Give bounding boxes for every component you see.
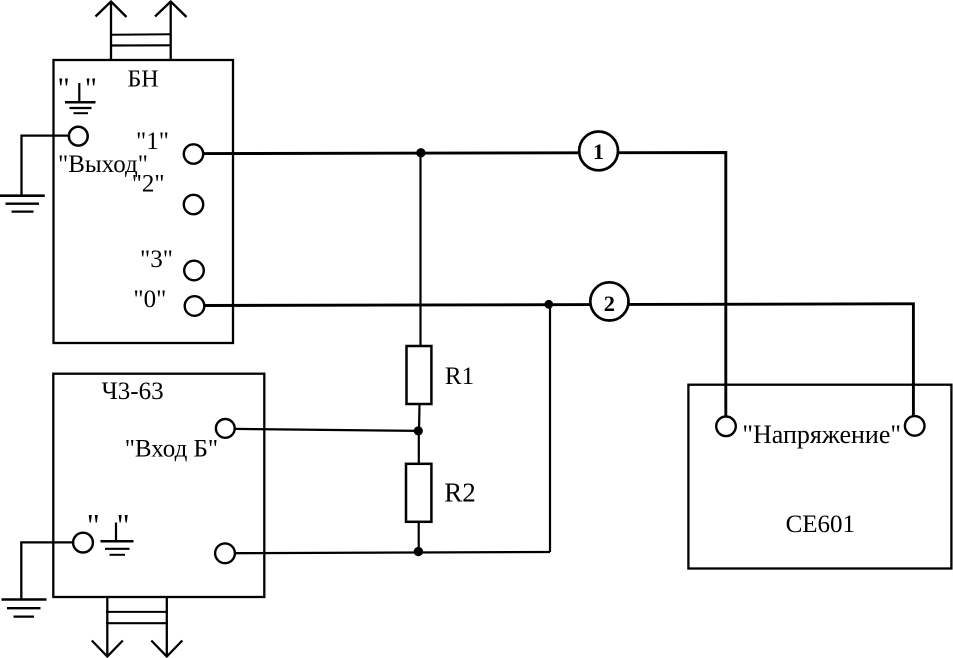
wire from Vyhod terminal to external ground [22,136,69,195]
svg-text:1: 1 [593,139,604,164]
cable rungs (top) [110,34,172,45]
svg-text:": " [85,72,97,105]
terminal CE601 right (Napryazhenie -) [905,416,925,436]
junction dot on wire 2 (tap to R2 bottom) [544,300,553,309]
svg-text:": " [58,72,70,105]
label "0" [133,286,166,313]
svg-text:R1: R1 [445,363,474,390]
svg-text:"1": "1" [136,128,169,155]
svg-text:СЕ601: СЕ601 [786,511,855,538]
svg-text:": " [87,507,100,543]
junction dot on bottom rail [414,547,423,556]
label CE601 [786,511,855,538]
terminal Ch3-63 lower-right [215,543,235,563]
label R2 [444,477,476,507]
svg-text:БН: БН [128,67,159,93]
junction dot at R1 top tap [416,148,425,157]
resistor R2 [406,464,431,522]
cable to mains (bottom), right conductor with arrow [151,597,182,657]
svg-text:"2": "2" [132,171,165,198]
ground symbol inside Ch3-63 (chassis, with quotes) [87,507,134,555]
block CE601 (voltmeter) outline [688,385,951,569]
label Napryazhenie [742,420,901,449]
bottom rail wire: Ch3-63 lower terminal to vertical riser [235,552,550,553]
cable to mains (bottom), left conductor with arrow [92,597,123,657]
label Ch3-63 title [102,378,164,405]
wire from Ch3-63 ground terminal to external ground [21,542,73,598]
block Ch3-63 (frequency counter) outline [53,374,264,597]
cable rungs (bottom) [106,612,168,623]
wire R1 bottom to mid junction [418,404,421,431]
earth ground (lower-left, external) [2,600,47,617]
earth ground (upper-left, external) [0,196,45,212]
label "1" [136,128,169,155]
wire from Vhod B terminal to mid junction [235,429,418,431]
label Vyhod [58,151,148,178]
block BN (voltage source unit) outline [54,60,234,343]
label R1 [445,363,474,390]
wire from junction down to R1 [419,153,421,347]
wire R2 bottom to bottom junction [418,522,420,552]
label "2" [132,171,165,198]
svg-text:Ч3-63: Ч3-63 [102,378,164,405]
svg-text:2: 2 [604,291,615,316]
svg-text:"Напряжение": "Напряжение" [742,420,901,449]
label "3" [140,246,173,273]
terminal Vyhod (BN left output) [69,127,88,146]
wire from wire-2 junction down to bottom rail [549,304,551,552]
svg-text:"3": "3" [140,246,173,273]
svg-text:"Вход Б": "Вход Б" [125,436,218,463]
terminal CE601 left (Napryazhenie +) [716,417,736,437]
resistor R1 [407,346,432,404]
terminal 1 of BN [184,144,203,163]
terminal ground side (Ch3-63 lower-left) [73,533,93,553]
wire from mid junction down to R2 [418,431,420,464]
node circle 2 [590,282,628,320]
ground symbol inside BN (chassis, with quotes) [58,72,97,113]
svg-text:"0": "0" [133,286,166,313]
terminal 0 of BN [185,296,205,316]
terminal 2 of BN [184,195,203,214]
label Vhod B [125,436,218,463]
wire 1: BN terminal 1 to CE601 left terminal [203,153,726,417]
terminal 3 of BN [184,261,204,281]
terminal Vhod B [216,419,235,438]
cable to mains (top), left conductor with arrow [96,2,127,61]
junction dot between R1 and R2 [414,426,423,435]
label BN title [128,67,159,93]
node circle 1 [579,132,618,171]
svg-text:R2: R2 [444,477,476,507]
cable to mains (top), right conductor with arrow [155,2,187,61]
svg-text:": " [117,507,130,543]
wire 2: BN terminal 0 to CE601 right terminal [205,304,914,416]
